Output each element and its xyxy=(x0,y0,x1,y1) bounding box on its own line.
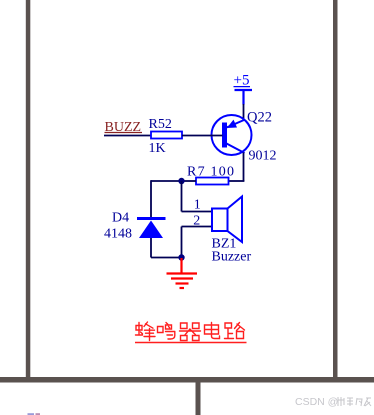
svg-text:R52: R52 xyxy=(149,117,172,132)
wire junction down to buzzer pin1 xyxy=(181,181,183,212)
svg-text:1K: 1K xyxy=(149,141,166,156)
svg-text:D4: D4 xyxy=(112,211,129,226)
wire pin2 down to ground junction xyxy=(181,227,183,258)
svg-text:Buzzer: Buzzer xyxy=(212,250,252,265)
title char qi xyxy=(180,323,201,341)
frame bottom stub xyxy=(196,383,201,415)
junction node bottom xyxy=(178,254,184,260)
watermark glyphs xyxy=(338,397,371,406)
transistor Q22 circle xyxy=(212,115,252,155)
transistor Q22 base bar xyxy=(222,123,227,148)
svg-text:CSDN @: CSDN @ xyxy=(295,396,338,408)
svg-text:R7 100: R7 100 xyxy=(187,165,234,180)
wire BUZZ to R52 xyxy=(104,135,151,137)
transistor Q22 collector xyxy=(227,144,245,154)
wire buzzer pin2 xyxy=(182,226,213,228)
net label BUZZ xyxy=(105,120,143,135)
title char ming xyxy=(158,323,175,340)
svg-text:4148: 4148 xyxy=(104,227,132,242)
transistor Q22 emitter with arrow xyxy=(227,120,245,128)
diode D4 triangle xyxy=(139,221,163,239)
resistor R52 xyxy=(151,132,182,139)
title char dian xyxy=(205,323,220,339)
buzzer BZ1 body xyxy=(212,209,228,232)
frame bottom bar xyxy=(0,377,374,383)
wire R52 to base xyxy=(182,135,223,137)
junction node top xyxy=(178,178,184,184)
buzzer BZ1 horn xyxy=(228,197,243,243)
wire junction to left corner xyxy=(151,180,182,182)
wire R7 right xyxy=(229,180,245,182)
diode D4 cathode bar xyxy=(137,217,166,220)
wire collector down to R7 xyxy=(243,153,245,182)
frame left bar xyxy=(26,0,31,377)
power +5 xyxy=(234,73,253,105)
wire R7 left to junction xyxy=(182,180,197,182)
svg-text:9012: 9012 xyxy=(249,149,277,164)
title 蜂鸣器电路 underline xyxy=(135,342,247,344)
title char feng xyxy=(136,322,156,341)
wire left down to diode xyxy=(150,180,152,217)
svg-text:Q22: Q22 xyxy=(247,110,272,126)
frame right bar xyxy=(333,0,338,377)
ground symbol xyxy=(167,258,198,288)
title char lu xyxy=(225,323,245,339)
wire bottom corner to ground junction xyxy=(151,257,182,259)
bottom edge text remnants xyxy=(28,413,41,415)
wire diode to bottom corner xyxy=(150,238,152,258)
svg-text:2: 2 xyxy=(193,214,200,229)
resistor R7 xyxy=(196,178,229,185)
svg-text:1: 1 xyxy=(194,198,201,213)
wire buzzer pin1 xyxy=(182,211,213,213)
wire +5 to emitter xyxy=(243,104,245,121)
